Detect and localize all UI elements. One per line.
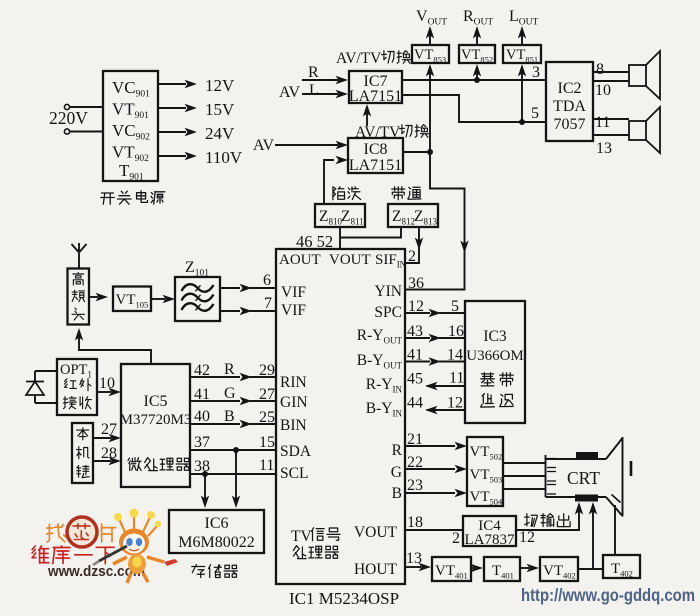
wire VT852 to R_OUT arrow bbox=[473, 26, 481, 45]
label 15 bbox=[259, 434, 275, 451]
op-amp IC8 LA7151 box bbox=[348, 138, 403, 174]
label 12 SPC bbox=[408, 298, 424, 315]
label 37 bbox=[194, 434, 210, 451]
svg-text:14: 14 bbox=[447, 347, 463, 364]
label 24V bbox=[205, 124, 235, 143]
node SDA junction bbox=[233, 447, 239, 453]
wire Z812 to SIF pin 2 of IC1 bbox=[406, 227, 423, 263]
label B-Y OUT bbox=[357, 352, 403, 371]
svg-text:25: 25 bbox=[259, 409, 275, 426]
label 18 bbox=[407, 514, 423, 531]
svg-text:G: G bbox=[391, 464, 402, 481]
label AV input to IC8 bbox=[253, 137, 274, 154]
deflection yoke bottom (black bar) bbox=[575, 495, 598, 502]
wire 12V output bbox=[158, 80, 197, 88]
svg-text:29: 29 bbox=[259, 362, 275, 379]
svg-text:11: 11 bbox=[449, 370, 464, 387]
svg-text:TDA: TDA bbox=[553, 98, 586, 115]
filter Z810 Z811 box bbox=[315, 204, 365, 227]
svg-text:VOUT: VOUT bbox=[354, 524, 398, 541]
wire T401 to VT402 bbox=[520, 564, 539, 572]
label 11 IC3 bbox=[449, 370, 464, 387]
svg-text:AV/TV: AV/TV bbox=[336, 50, 382, 67]
label 5 IC3 bbox=[451, 298, 459, 315]
svg-text:22: 22 bbox=[407, 454, 423, 471]
svg-text:12V: 12V bbox=[205, 76, 235, 95]
label R input bbox=[308, 64, 319, 81]
svg-text:IC3: IC3 bbox=[483, 328, 507, 345]
wire IC2 pin 11 to speaker 2 bbox=[593, 118, 629, 120]
label B-Y IN bbox=[366, 400, 403, 419]
label G out bbox=[391, 464, 402, 481]
label 45 bbox=[407, 371, 423, 388]
audio amp IC2 TDA7057 box bbox=[546, 62, 593, 141]
svg-text:IC6: IC6 bbox=[205, 515, 229, 532]
label 陷波 (notch) bbox=[333, 187, 361, 200]
svg-text:24V: 24V bbox=[205, 124, 235, 143]
label 21 bbox=[407, 431, 423, 448]
svg-text:44: 44 bbox=[407, 395, 423, 412]
wire IC8 to IC7 (arrow up) bbox=[363, 104, 371, 126]
svg-text:21: 21 bbox=[407, 431, 423, 448]
wire Z101 to VIF pin 7 bbox=[220, 307, 276, 315]
svg-text:L: L bbox=[309, 82, 319, 99]
svg-text:6: 6 bbox=[263, 272, 271, 289]
wire G 22 to VT503 bbox=[405, 465, 467, 473]
wire VT105 to Z101 bbox=[151, 295, 175, 303]
label 22 bbox=[407, 454, 423, 471]
label 40 bbox=[194, 408, 210, 425]
wire VT851 to L_OUT arrow bbox=[518, 26, 526, 45]
wire IC2 pin 8 to speaker 1 bbox=[593, 71, 629, 73]
transistor VT105 box bbox=[113, 287, 151, 312]
watermark dzsc logo and mascot bbox=[32, 509, 178, 584]
label TV信号 inside IC1 bbox=[291, 528, 340, 545]
label L_OUT bbox=[509, 8, 539, 28]
label L input bbox=[309, 82, 319, 99]
label 16 bbox=[448, 323, 464, 340]
svg-text:16: 16 bbox=[448, 323, 464, 340]
svg-text:LA7151: LA7151 bbox=[349, 88, 402, 105]
label pin 11 bbox=[595, 114, 610, 131]
label V_OUT bbox=[416, 8, 447, 28]
svg-text:SPC: SPC bbox=[374, 304, 402, 321]
transformer T401 box bbox=[484, 557, 520, 581]
keypad block 本机键 bbox=[72, 423, 93, 483]
label Z101 bbox=[185, 259, 209, 279]
wire Z101 to VIF pin 6 bbox=[220, 284, 276, 292]
label 29 bbox=[259, 362, 275, 379]
svg-text:GIN: GIN bbox=[280, 394, 308, 411]
label AV (R/L inputs) bbox=[279, 84, 300, 101]
node junction under VT852 bbox=[474, 77, 480, 83]
label B wire bbox=[224, 408, 235, 425]
label 41 bbox=[194, 386, 210, 403]
label 41 right bbox=[407, 347, 423, 364]
wire AV into IC8 bbox=[275, 141, 348, 149]
AC terminal bottom bbox=[64, 129, 69, 134]
svg-text:40: 40 bbox=[194, 408, 210, 425]
label R out bbox=[392, 442, 403, 459]
label 43 bbox=[407, 323, 423, 340]
wire node up to VT853 bbox=[426, 64, 434, 152]
AC terminal top bbox=[64, 104, 69, 109]
label YIN bbox=[374, 283, 402, 300]
svg-text:5: 5 bbox=[451, 298, 459, 315]
label 23 bbox=[407, 477, 423, 494]
node junction under VT851 bbox=[519, 119, 525, 125]
label 220V bbox=[49, 108, 88, 128]
speaker 1 bbox=[629, 51, 660, 99]
wire R-Y OUT 43-16 bbox=[405, 334, 465, 342]
label VIF 1 bbox=[281, 284, 306, 301]
label 12 IC3 bbox=[447, 395, 463, 412]
label HOUT right bbox=[354, 561, 398, 578]
svg-text:CRT: CRT bbox=[567, 468, 600, 488]
label pin 28 bbox=[101, 445, 117, 462]
svg-text:11: 11 bbox=[259, 457, 274, 474]
wire SDA 37-15 bbox=[190, 449, 276, 451]
label SCL bbox=[280, 465, 308, 482]
delay line IC3 U366OM box bbox=[465, 301, 525, 423]
svg-text:TV: TV bbox=[291, 528, 312, 545]
svg-text:RIN: RIN bbox=[280, 374, 307, 391]
svg-text:37: 37 bbox=[194, 434, 210, 451]
svg-text:LA7837: LA7837 bbox=[465, 532, 515, 548]
label SDA bbox=[280, 443, 312, 460]
transistor VT853 box bbox=[412, 45, 449, 65]
svg-text:5: 5 bbox=[531, 105, 539, 122]
svg-text:10: 10 bbox=[595, 82, 611, 99]
svg-text:M37720M3: M37720M3 bbox=[120, 412, 192, 428]
microprocessor IC5 M37720M3 box bbox=[120, 364, 192, 487]
label IC1 M5234OSP bbox=[289, 589, 399, 608]
label B out bbox=[392, 485, 402, 502]
wire IC7 out to IC2 pin 3 bbox=[402, 79, 546, 81]
label VIF 2 bbox=[281, 302, 306, 319]
svg-text:OPT1: OPT1 bbox=[60, 362, 92, 380]
label 12V bbox=[205, 76, 235, 95]
svg-text:IC8: IC8 bbox=[364, 141, 388, 158]
wire VT503 to CRT bbox=[503, 475, 545, 477]
wire L into IC7 pin bbox=[302, 90, 348, 98]
svg-text:IC5: IC5 bbox=[144, 393, 168, 410]
node IC8 output junction bbox=[427, 149, 433, 155]
transformer T402 box bbox=[603, 555, 640, 579]
wire R 42-29 bbox=[190, 373, 276, 381]
svg-text:IC2: IC2 bbox=[558, 80, 582, 97]
svg-text:13: 13 bbox=[596, 140, 612, 157]
wire HOUT 13 to VT401 bbox=[405, 563, 431, 571]
op-amp IC7 LA7151 box bbox=[349, 71, 402, 105]
switching power supply box VC901/VT901/VC902/VT902/T901 bbox=[103, 71, 158, 183]
label pin 7 bbox=[264, 295, 272, 312]
transistor VT402 box bbox=[540, 557, 578, 581]
wire VT504 to CRT bbox=[503, 488, 545, 490]
block OPT1 红外接收 (IR receiver) bbox=[57, 359, 97, 415]
label R-Y OUT bbox=[357, 327, 403, 346]
label 存储器 (memory) bbox=[192, 565, 238, 578]
svg-text:3: 3 bbox=[532, 64, 540, 81]
label pin 5 of IC2 bbox=[531, 105, 539, 122]
wire VT853 to V_OUT arrow bbox=[426, 26, 434, 45]
label VOUT right bbox=[354, 524, 398, 541]
svg-text:M6M80022: M6M80022 bbox=[178, 534, 254, 551]
svg-text:U366OM: U366OM bbox=[466, 348, 524, 364]
svg-text:AV: AV bbox=[253, 137, 274, 154]
label pin 13 bbox=[596, 140, 612, 157]
transistor VT401 box bbox=[432, 557, 471, 581]
deflection yoke top (black bar) bbox=[576, 452, 598, 460]
svg-text:36: 36 bbox=[408, 275, 424, 292]
label pin 10 bbox=[595, 82, 611, 99]
label R-Y IN bbox=[366, 376, 403, 395]
svg-text:110V: 110V bbox=[205, 148, 243, 167]
label R wire bbox=[224, 361, 235, 378]
svg-text:HOUT: HOUT bbox=[354, 561, 398, 578]
label 15V bbox=[205, 100, 235, 119]
svg-text:15V: 15V bbox=[205, 100, 235, 119]
label VOUT (IC1 top) bbox=[329, 252, 371, 268]
wire R-Y IN 45-11 bbox=[425, 382, 465, 390]
wire VOUT 18 to IC4 bbox=[405, 529, 463, 531]
photodiode bbox=[26, 371, 57, 403]
svg-text:http://www.go-gddq.com: http://www.go-gddq.com bbox=[521, 585, 695, 605]
wire IC2 pin 13 to speaker 2 bbox=[593, 134, 629, 136]
svg-text:12: 12 bbox=[408, 298, 424, 315]
filter Z101 box with wave symbol bbox=[175, 277, 220, 321]
label AOUT (IC1 top) bbox=[279, 252, 321, 268]
wire SCL 38-11 bbox=[190, 473, 276, 475]
transistors VT502 VT503 VT504 box bbox=[467, 437, 503, 507]
wire VT502 to CRT bbox=[503, 462, 545, 464]
svg-text:VIF: VIF bbox=[281, 302, 306, 319]
svg-text:23: 23 bbox=[407, 477, 423, 494]
label pin 3 of IC2 bbox=[532, 64, 540, 81]
svg-text:R: R bbox=[308, 64, 319, 81]
wire B 40-25 bbox=[190, 420, 276, 428]
wire B-Y IN 44-12 bbox=[425, 406, 465, 414]
wire SCL down to IC6 bbox=[201, 474, 209, 508]
speaker 2 bbox=[629, 107, 660, 153]
wire B-Y OUT 41-14 bbox=[405, 357, 465, 365]
svg-text:VIF: VIF bbox=[281, 284, 306, 301]
wire 220V top to box bbox=[70, 106, 103, 108]
svg-text:27: 27 bbox=[101, 421, 117, 438]
svg-text:27: 27 bbox=[259, 386, 275, 403]
svg-text:38: 38 bbox=[194, 458, 210, 475]
label 12 IC4 out bbox=[519, 529, 535, 546]
wire G 41-27 bbox=[190, 397, 276, 405]
node SCL junction bbox=[202, 471, 208, 477]
label 44 bbox=[407, 395, 423, 412]
wire SPC 12-5 to IC3 bbox=[405, 309, 465, 317]
wire node down to YIN pin 36 bbox=[406, 152, 469, 290]
svg-text:G: G bbox=[224, 385, 236, 402]
svg-text:7: 7 bbox=[264, 295, 272, 312]
wire VT401 to T401 bbox=[471, 564, 484, 572]
wire 220V bottom to box bbox=[70, 131, 103, 133]
label 25 bbox=[259, 409, 275, 426]
wire keypad to IC5 pin 27 bbox=[93, 434, 121, 442]
label 42 bbox=[194, 362, 210, 379]
wire IC5 to tuner (arrow up) bbox=[75, 328, 151, 364]
wire OPT1 to IC5 bbox=[97, 388, 121, 396]
wire Z812 bottom link to Z810 line bbox=[340, 227, 401, 238]
label 110V bbox=[205, 148, 243, 167]
wire keypad to IC5 pin 28 bbox=[93, 457, 121, 465]
svg-text:2: 2 bbox=[408, 248, 416, 265]
svg-text:R: R bbox=[392, 442, 403, 459]
label 14 bbox=[447, 347, 463, 364]
label pin 6 bbox=[263, 272, 271, 289]
label RIN bbox=[280, 374, 307, 391]
svg-text:R: R bbox=[224, 361, 235, 378]
wire IC4 pin 12 up to CRT yoke bbox=[516, 502, 583, 530]
label AV/TV切换 (IC8) bbox=[355, 124, 429, 141]
svg-text:SCL: SCL bbox=[280, 465, 308, 482]
wire VT402 to T402 bbox=[578, 568, 603, 570]
label BIN bbox=[280, 417, 307, 434]
label 13 HOUT bbox=[406, 550, 422, 567]
svg-text:B: B bbox=[392, 485, 402, 502]
wire junction up to CRT yoke bbox=[589, 502, 597, 569]
wire 110V output bbox=[158, 152, 197, 160]
label GIN bbox=[280, 394, 308, 411]
wire 24V output bbox=[158, 128, 197, 136]
wire 15V output bbox=[158, 104, 197, 112]
label R_OUT bbox=[463, 8, 493, 28]
label 开关电源 (switching power supply) bbox=[101, 191, 165, 204]
svg-text:43: 43 bbox=[407, 323, 423, 340]
label pin 27 bbox=[101, 421, 117, 438]
label 带通 (bandpass) bbox=[392, 187, 421, 200]
svg-text:VOUT: VOUT bbox=[329, 252, 371, 268]
svg-text:B: B bbox=[224, 408, 235, 425]
svg-text:42: 42 bbox=[194, 362, 210, 379]
wire into VT852 from node bbox=[473, 64, 481, 80]
svg-text:LA7151: LA7151 bbox=[349, 157, 402, 174]
wire B 23 to VT504 bbox=[405, 489, 467, 497]
svg-text:11: 11 bbox=[595, 114, 610, 131]
svg-text:7057: 7057 bbox=[554, 116, 586, 133]
filter Z812 Z813 box bbox=[388, 204, 438, 227]
label 场输出 (vertical output) bbox=[525, 514, 571, 527]
label pin 2 SIF bbox=[408, 248, 416, 265]
label 11 pin SCL bbox=[259, 457, 274, 474]
wire SDA down to IC6 bbox=[232, 450, 240, 508]
wire R into IC7 pin bbox=[302, 76, 348, 84]
svg-text:15: 15 bbox=[259, 434, 275, 451]
label SIF_IN (IC1 top) bbox=[375, 252, 407, 270]
svg-text:2: 2 bbox=[452, 530, 460, 547]
memory IC6 M6M80022 box bbox=[169, 510, 264, 553]
svg-text:220V: 220V bbox=[49, 108, 88, 128]
wire IC8 output to node bbox=[403, 151, 430, 153]
transistor VT851 box bbox=[503, 45, 541, 65]
svg-text:18: 18 bbox=[407, 514, 423, 531]
wire IC7 out lower to IC2 pin 5 bbox=[402, 95, 546, 122]
CRT side tick bbox=[630, 461, 633, 476]
svg-text:AOUT: AOUT bbox=[279, 252, 321, 268]
label 38 bbox=[194, 458, 210, 475]
label 处理器 inside IC1 bbox=[293, 546, 338, 559]
antenna bbox=[72, 243, 87, 268]
wire R 21 to VT502 bbox=[405, 442, 467, 450]
svg-text:8: 8 bbox=[596, 61, 604, 78]
label 2 IC4 bbox=[452, 530, 460, 547]
svg-text:IC1 M5234OSP: IC1 M5234OSP bbox=[289, 589, 399, 608]
svg-text:12: 12 bbox=[447, 395, 463, 412]
label AV/TV切换 (IC7) bbox=[336, 50, 411, 67]
vertical amp IC4 LA7837 box bbox=[463, 516, 516, 548]
label 27 pin bbox=[259, 386, 275, 403]
svg-text:12: 12 bbox=[519, 529, 535, 546]
svg-text:SDA: SDA bbox=[280, 443, 312, 460]
URL http://www.go-gddq.com bbox=[521, 585, 695, 605]
label pins 46 52 bbox=[296, 232, 333, 251]
wire into VT851 from node bbox=[518, 64, 526, 122]
wire Z810 bottom to IC1 pins 46/52 bbox=[339, 227, 341, 249]
transistor VT852 box bbox=[459, 45, 495, 65]
CRT tube bbox=[546, 437, 623, 517]
svg-text:45: 45 bbox=[407, 371, 423, 388]
wire T402 top to CRT anode bbox=[614, 505, 616, 555]
wire IC2 pin 10 to speaker 1 bbox=[593, 80, 629, 82]
label pin 8 bbox=[596, 61, 604, 78]
label G wire bbox=[224, 385, 236, 402]
wire tuner to VT105 bbox=[89, 293, 108, 301]
label pin 10 bbox=[99, 375, 115, 392]
svg-text:YIN: YIN bbox=[374, 283, 402, 300]
svg-text:13: 13 bbox=[406, 550, 422, 567]
tuner block 高频头 bbox=[68, 269, 90, 325]
label pin 36 bbox=[408, 275, 424, 292]
label SPC bbox=[374, 304, 402, 321]
svg-text:BIN: BIN bbox=[280, 417, 307, 434]
svg-text:AV: AV bbox=[279, 84, 300, 101]
svg-text:41: 41 bbox=[407, 347, 423, 364]
TV signal processor IC1 M5234OSP box bbox=[276, 249, 405, 584]
wire Z810 top to IC8 second input bbox=[324, 156, 348, 203]
svg-text:41: 41 bbox=[194, 386, 210, 403]
